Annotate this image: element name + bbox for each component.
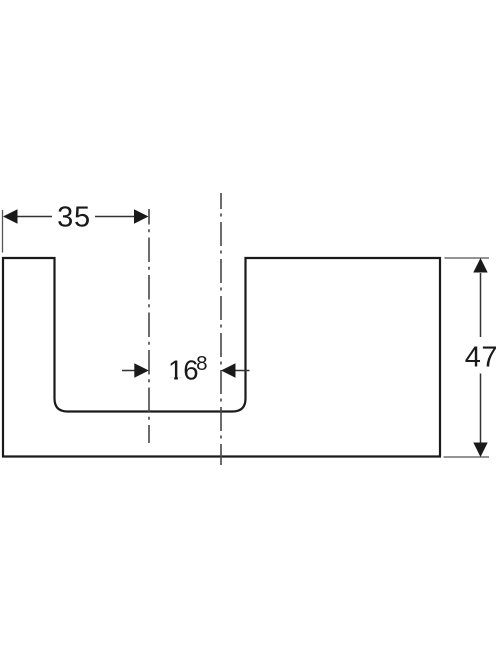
- centerline left (cutout axis): [148, 209, 150, 443]
- extension line top (dim 47): [445, 257, 490, 259]
- centerline right: [220, 193, 222, 465]
- dimension line 47: [480, 273, 482, 337]
- dimension line 35: [16, 216, 52, 218]
- svg-text:47: 47: [465, 342, 496, 374]
- arrow down of dim 47: [473, 443, 487, 458]
- part outline: [3, 258, 440, 457]
- arrow left of dim 35: [3, 209, 18, 223]
- dimension 16.8 right arrow: [234, 370, 250, 372]
- arrow up of dim 47: [473, 258, 487, 273]
- extension line bottom (dim 47): [444, 456, 490, 458]
- dimension 16.8 left arrow: [122, 370, 136, 372]
- mask foot serif of digit 1 to match Helvetica-style numeral: [169, 377, 175, 380]
- svg-text:35: 35: [57, 202, 91, 234]
- extension line left (dim 35): [2, 210, 4, 253]
- arrow right of dim 35: [134, 209, 149, 223]
